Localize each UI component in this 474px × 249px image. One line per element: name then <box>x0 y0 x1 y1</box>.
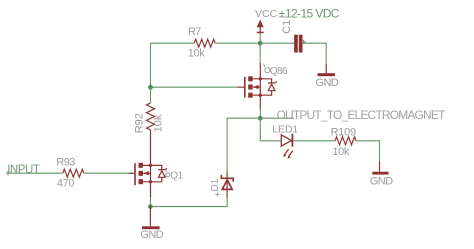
wire output junction left and down to D1 <box>227 118 260 171</box>
svg-text:+12-15 VDC: +12-15 VDC <box>279 6 340 20</box>
capacitor C1 <box>281 20 306 53</box>
wire Q1 source down to ground junction <box>150 182 152 207</box>
label +12-15 VDC <box>279 6 340 20</box>
wire output junction down to LED branch <box>260 118 281 141</box>
svg-text:GND: GND <box>140 229 163 241</box>
node output junction <box>258 116 263 121</box>
wire R92 to Q1 drain <box>150 130 152 165</box>
wire R7 to VCC junction <box>215 42 260 44</box>
node VCC rail junction <box>258 41 263 46</box>
wire output stub right <box>260 117 294 119</box>
node gate-rail junction <box>148 85 153 90</box>
wire VCC stem to junction <box>259 34 261 44</box>
wire junction to C1 <box>260 42 294 44</box>
ground GND under Q1 <box>140 207 163 242</box>
resistor R7 <box>188 26 215 60</box>
svg-text:INPUT: INPUT <box>7 164 40 176</box>
wire R109 to GND corner <box>356 141 380 162</box>
svg-text:LED1: LED1 <box>272 124 298 136</box>
svg-text:10k: 10k <box>332 146 349 158</box>
svg-text:Q86: Q86 <box>270 66 288 77</box>
svg-text:10k: 10k <box>153 114 165 132</box>
svg-text:R92: R92 <box>133 113 145 133</box>
diode D1 (zener) <box>210 171 233 197</box>
svg-text:R93: R93 <box>56 157 75 169</box>
resistor R92 <box>133 103 164 133</box>
label INPUT <box>7 164 40 176</box>
label OUTPUT_TO_ELECTROMAGNET <box>277 108 447 122</box>
wire D1 to ground rail <box>153 198 227 207</box>
svg-text:R7: R7 <box>188 26 201 38</box>
wire LED1 to R109 <box>293 140 335 142</box>
wire INPUT net horizontal <box>6 172 63 174</box>
svg-text:C1: C1 <box>281 20 293 34</box>
wire junction to Q86 gate <box>151 86 238 88</box>
wire R93 to Q1 gate <box>84 172 129 174</box>
svg-text:D1: D1 <box>210 178 221 191</box>
wire Q86 drain down to output junction <box>259 95 261 118</box>
svg-text:VCC: VCC <box>255 8 278 20</box>
svg-text:GND: GND <box>370 176 393 188</box>
wire C1 to GND corner <box>303 43 326 64</box>
wire top rail: R7 left corner down to gate junction <box>150 43 152 87</box>
wire junction down to R92 <box>150 87 152 103</box>
ground GND under C1 <box>316 64 339 89</box>
svg-text:470: 470 <box>57 178 75 190</box>
resistor R109 <box>331 127 356 159</box>
svg-text:GND: GND <box>316 77 339 89</box>
supply VCC symbol <box>255 8 278 33</box>
LED LED1 <box>272 124 298 159</box>
svg-text:10k: 10k <box>188 48 205 60</box>
transistor Q86 (p-channel MOSFET, high side) <box>238 64 288 98</box>
resistor R93 <box>56 157 84 190</box>
node source-ground junction <box>148 204 153 209</box>
ground GND under R109 <box>370 162 393 188</box>
svg-text:R109: R109 <box>331 127 356 139</box>
svg-text:Q1: Q1 <box>170 170 183 181</box>
wire Q86 source up to VCC junction <box>259 43 261 79</box>
transistor Q1 (n-channel MOSFET) <box>129 163 184 186</box>
wire top rail horizontal left segment <box>151 42 195 44</box>
svg-text:OUTPUT_TO_ELECTROMAGNET: OUTPUT_TO_ELECTROMAGNET <box>277 108 447 122</box>
